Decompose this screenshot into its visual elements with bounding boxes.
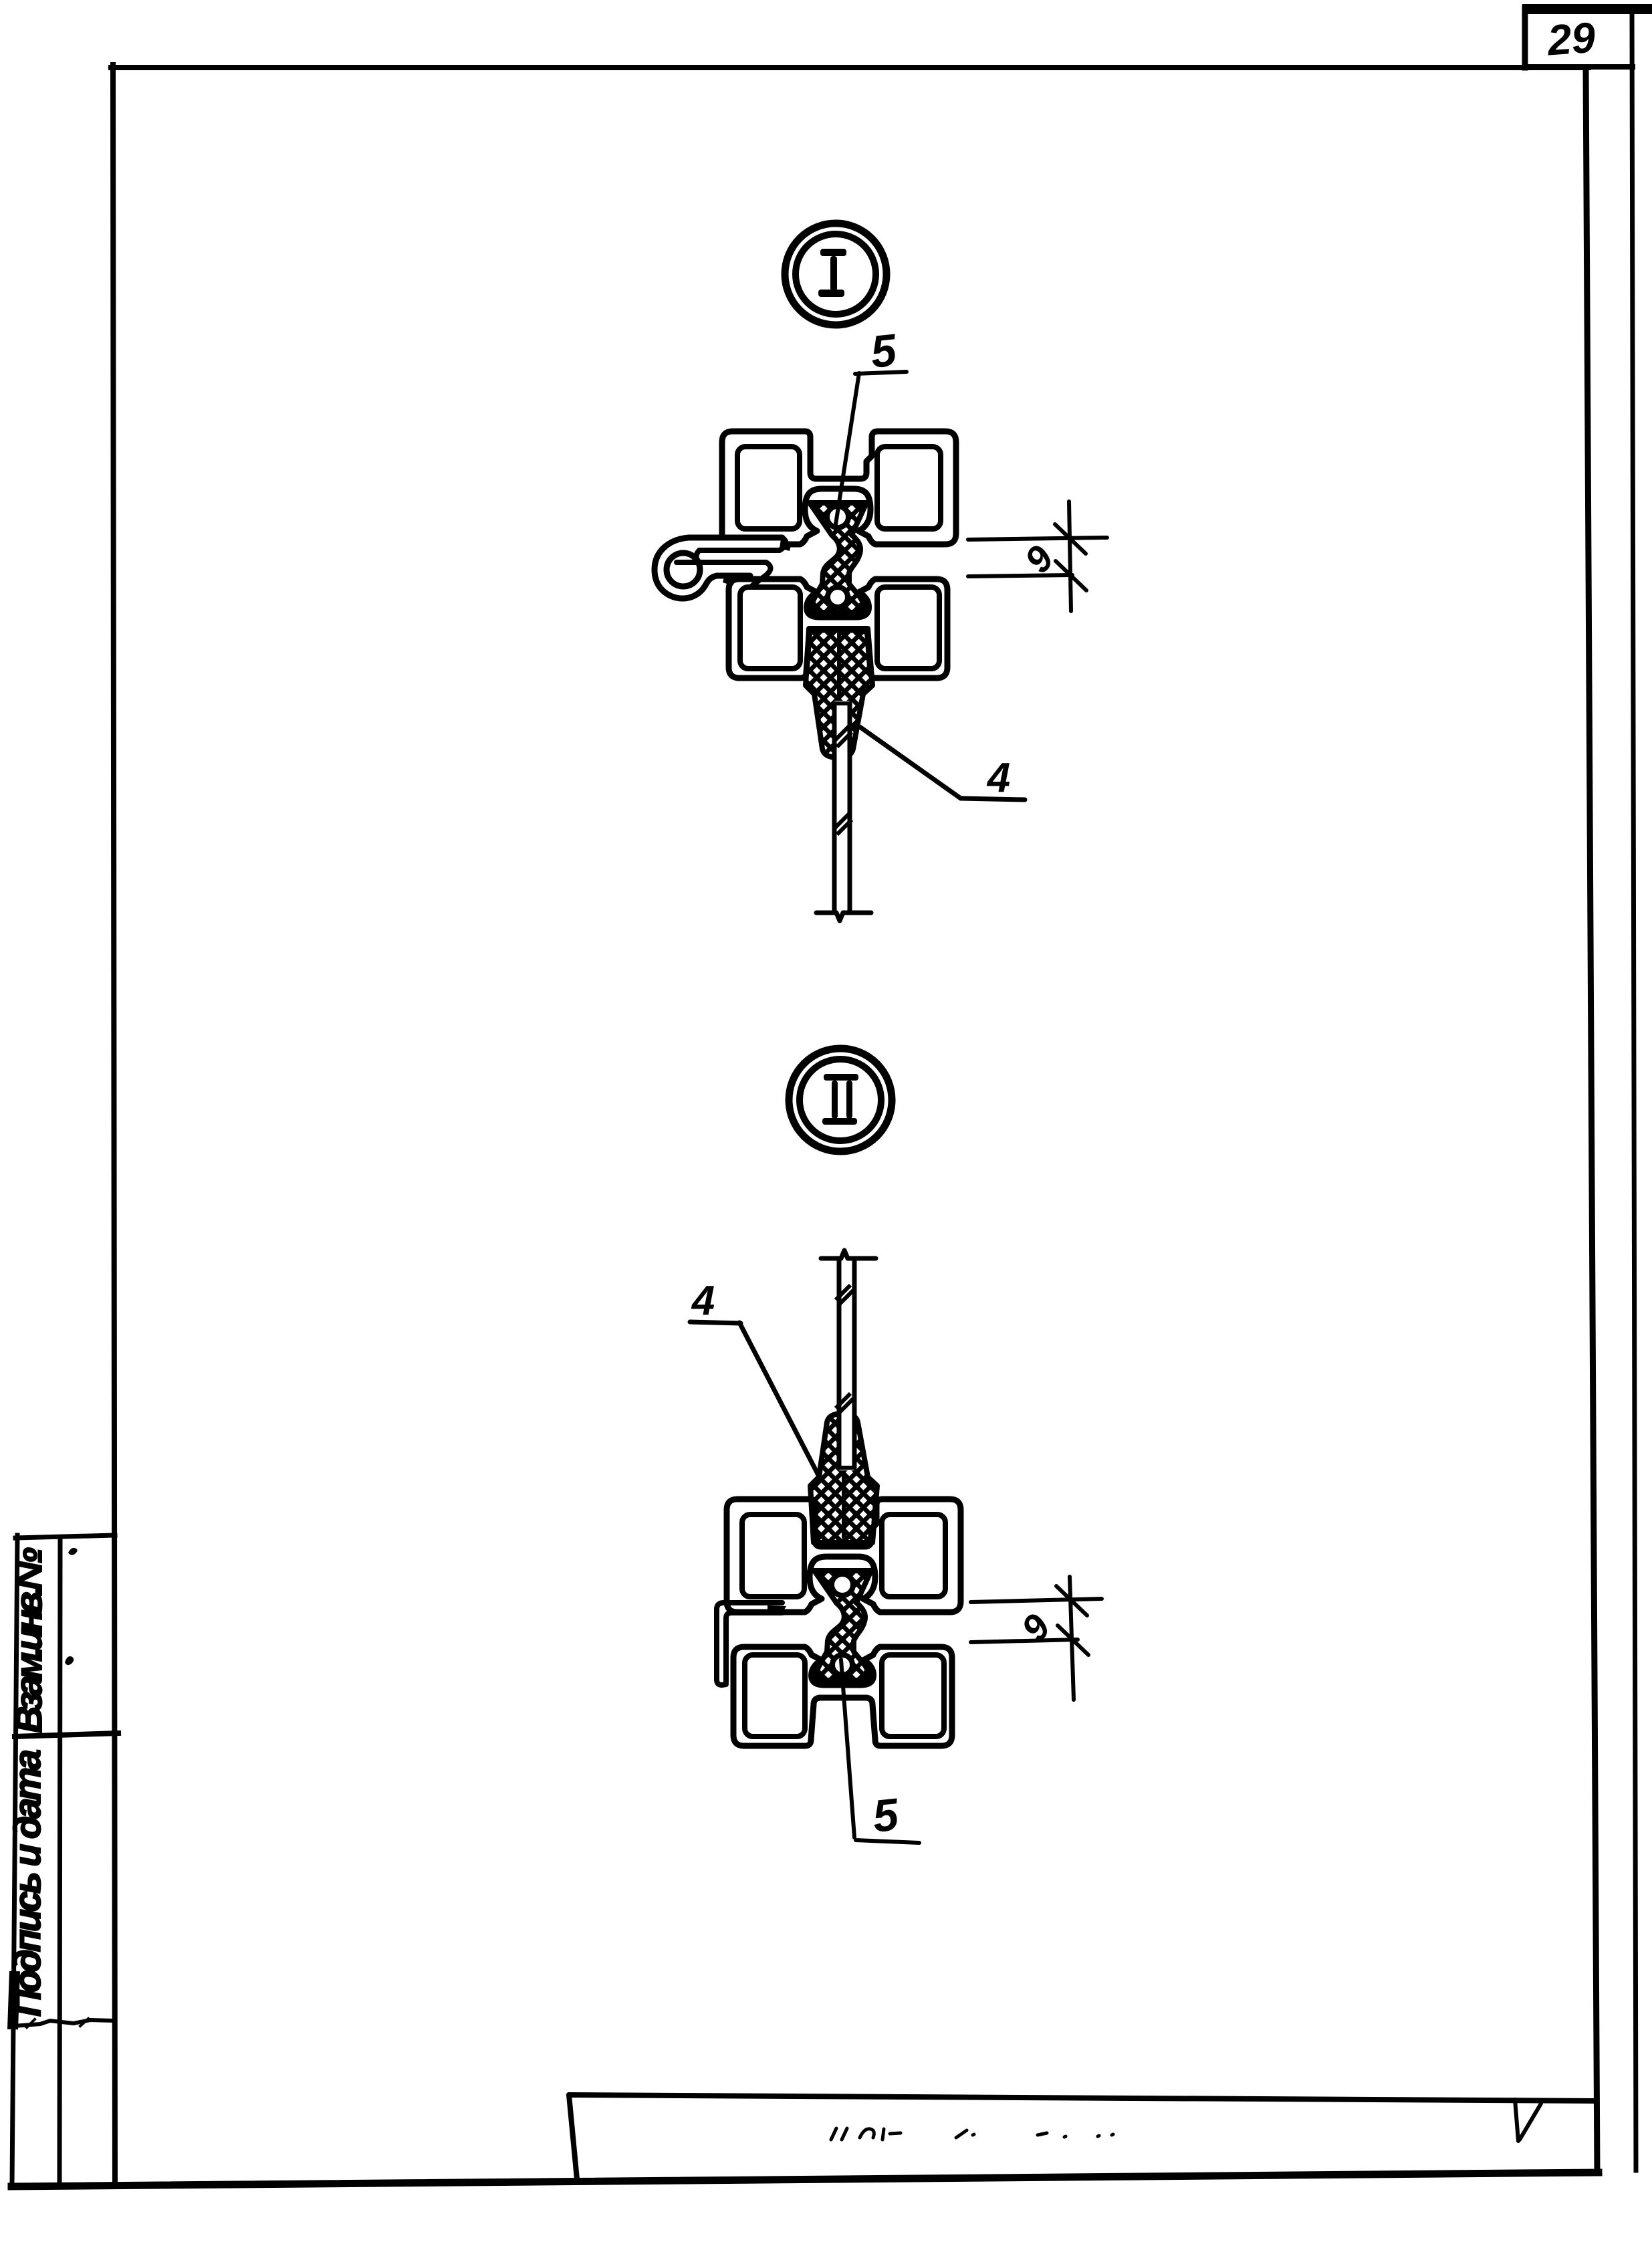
page number box left edge: [1522, 8, 1528, 68]
frame right border: [1586, 68, 1597, 2173]
stamp column inner vertical line: [60, 1538, 60, 2181]
roman numeral II: [822, 1074, 858, 1125]
junction blob upper leg tip: [780, 539, 792, 551]
dimension 9 (detail I): [968, 501, 1107, 611]
detail marker circle II: [789, 1048, 892, 1151]
pin slot end: [697, 550, 700, 562]
pin outer silhouette: [655, 538, 782, 598]
page number box bottom edge: [1525, 64, 1633, 70]
frame bottom border: [11, 2172, 1599, 2187]
twin profile assembly of detail I: [722, 431, 956, 678]
frame left border: [113, 65, 115, 2184]
stamp column top edge: [15, 1535, 115, 1538]
svg-text:4: 4: [691, 1278, 715, 1324]
leader line 4 (detail II): [690, 1322, 819, 1476]
leader line 4 (detail I): [860, 727, 1025, 800]
ink speck 1: [68, 1548, 78, 1555]
rod spiral ticks detail I: [834, 726, 852, 834]
pin ring hole: [667, 553, 700, 586]
roman numeral I: [818, 249, 846, 297]
stamp column outer left edge: [12, 1535, 17, 2184]
junction blob hook/profile: [768, 1605, 786, 1615]
dimension 9 (detail II): [971, 1577, 1102, 1700]
svg-text:4: 4: [986, 755, 1010, 801]
frame top border: [111, 65, 1588, 70]
svg-text:Взам.инв.№: Взам.инв.№: [7, 1547, 49, 1733]
crimp cone and rod of detail II (flipped): [810, 1250, 877, 1543]
svg-text:29: 29: [1545, 13, 1597, 65]
twin profile assembly of detail II: [727, 1499, 961, 1746]
title strip left edge: [569, 2095, 577, 2179]
junction blob pin/profile: [723, 574, 737, 586]
hook strap detail II: [717, 1603, 782, 1685]
leader line 5 (detail I): [836, 372, 907, 524]
faint handwriting in strip: [831, 2128, 1113, 2140]
detail marker circle I: [785, 223, 887, 325]
stamp column divider: [15, 1733, 118, 1736]
ink speck 2: [65, 1656, 74, 1665]
ink blotch on stamp edge: [13, 1971, 15, 2029]
check mark in strip: [1515, 2100, 1541, 2141]
stamp column sketchy lower divider: [13, 2020, 115, 2026]
crimp cone and rod of detail I: [806, 629, 872, 921]
pin upper leg lower edge: [699, 538, 786, 550]
rod spiral ticks detail II: [836, 1285, 853, 1414]
leader line 5 (detail II): [841, 1660, 919, 1843]
sheet top edge bar: [1522, 4, 1652, 14]
title strip top edge: [569, 2095, 1595, 2101]
split pin ring detail I: [655, 538, 789, 598]
sheet right trim line: [1632, 9, 1636, 2170]
pin lower leg upper edge: [677, 562, 771, 586]
